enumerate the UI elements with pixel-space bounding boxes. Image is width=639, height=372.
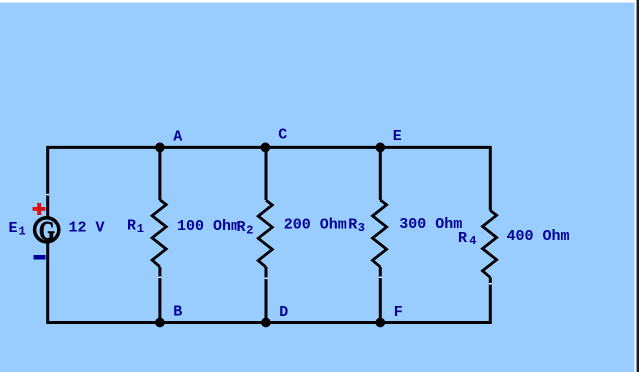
svg-text:4: 4 (469, 234, 476, 248)
svg-text:2: 2 (246, 223, 253, 237)
svg-text:1: 1 (137, 222, 144, 236)
svg-text:100 Ohm: 100 Ohm (177, 218, 240, 235)
svg-text:G: G (39, 217, 55, 246)
svg-text:R: R (458, 230, 467, 247)
svg-text:400 Ohm: 400 Ohm (507, 228, 570, 245)
svg-text:R: R (237, 219, 246, 236)
svg-text:200 Ohm: 200 Ohm (284, 217, 347, 234)
svg-text:R: R (348, 217, 357, 234)
svg-text:F: F (394, 304, 403, 321)
svg-text:E: E (393, 128, 402, 145)
svg-text:C: C (278, 127, 287, 144)
svg-text:300 Ohm: 300 Ohm (399, 216, 462, 233)
svg-text:A: A (173, 128, 182, 145)
svg-text:E: E (9, 220, 18, 237)
svg-text:B: B (173, 303, 182, 320)
svg-text:R: R (127, 218, 136, 235)
svg-text:D: D (279, 304, 288, 321)
svg-text:1: 1 (19, 225, 26, 239)
svg-text:12 V: 12 V (69, 220, 105, 237)
svg-text:3: 3 (358, 221, 365, 235)
